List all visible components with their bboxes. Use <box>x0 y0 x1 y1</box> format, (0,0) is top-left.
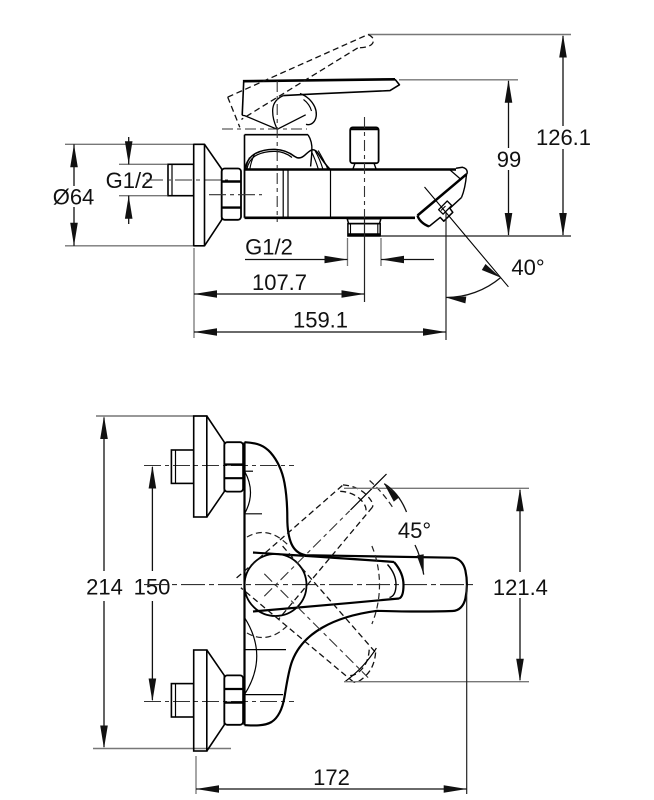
dimension line 107.7 <box>194 293 365 295</box>
svg-text:172: 172 <box>313 765 350 790</box>
extension line top of escutcheon for 214 <box>96 415 207 417</box>
dimension line Ø64 vertical <box>73 144 75 186</box>
extension line pipe bottom for G1/2 <box>119 195 167 197</box>
spout lower edge with aerator bump <box>429 198 462 227</box>
wall pipe stub top view <box>168 164 194 195</box>
lower escutcheon front view <box>194 650 207 751</box>
deck edge line at fold <box>450 170 462 180</box>
handle lever blade side view <box>243 79 395 81</box>
dimension line G1/2 bottom outside arrows <box>245 259 348 261</box>
svg-text:40°: 40° <box>511 255 544 280</box>
angle reference slant 40deg <box>446 213 508 287</box>
handle base side view <box>242 82 244 115</box>
dimension line 172 <box>196 788 467 790</box>
root swing arc lower dashed <box>247 625 288 638</box>
spout barrel inner edge <box>422 177 464 213</box>
spout tip face <box>418 216 430 227</box>
mixer body top view <box>244 170 246 218</box>
swing arc solid segment lower <box>345 648 376 681</box>
lower union hex nut <box>224 675 243 724</box>
angle 45 leader arc <box>384 484 406 512</box>
handle pivot axis centerline <box>276 81 278 222</box>
decorative wavy skirt <box>245 149 330 169</box>
svg-text:G1/2: G1/2 <box>245 235 293 260</box>
lower union inner arc <box>245 618 257 695</box>
extension line bottom for 121.4 <box>344 681 529 683</box>
dimension line 121.4 <box>519 490 521 572</box>
spout end cap right edge <box>462 174 467 197</box>
diverter knob centerline <box>364 117 366 218</box>
extension line spout tip for 172 <box>466 585 468 794</box>
svg-text:Ø64: Ø64 <box>53 185 95 210</box>
upper inlet centerline <box>144 465 294 467</box>
union hex nut side view <box>222 169 241 220</box>
extension line spout tip center <box>445 213 447 341</box>
handle blade front view <box>253 553 394 563</box>
aerator insert <box>439 201 452 214</box>
dashed handle tip inner face down <box>347 650 369 676</box>
extension line bottom reference (outlet underside) for 99 and 126.1 <box>381 235 571 237</box>
body outline front view <box>245 442 467 725</box>
reference line 45 up solid <box>351 474 387 510</box>
main horizontal centerline bottom view <box>144 584 474 586</box>
extension line escutcheon top for Ø64 <box>65 143 193 145</box>
svg-text:214: 214 <box>86 575 123 600</box>
spout top deck corner fold <box>456 167 467 174</box>
svg-text:45°: 45° <box>398 518 431 543</box>
handle blade tip inner face <box>388 565 397 598</box>
svg-text:159.1: 159.1 <box>293 308 348 333</box>
upper union hex nut <box>224 442 243 491</box>
dimension line 99 vertical <box>508 81 510 148</box>
spout axis leader line <box>425 187 447 213</box>
wall pipe centerline <box>146 179 228 181</box>
escutcheon flange side view <box>194 144 205 246</box>
handle boss circle <box>245 554 307 616</box>
dimension line 214 <box>103 418 105 572</box>
extension line bottom of escutcheon for 214 <box>93 748 231 750</box>
svg-text:121.4: 121.4 <box>493 575 548 600</box>
body joint line upper a <box>245 470 254 472</box>
root swing arc upper dashed <box>247 533 288 546</box>
extension line top reference (handle raised tip) for 126.1 <box>368 34 571 36</box>
body centerline <box>209 194 262 196</box>
dimension line 150 <box>151 467 153 571</box>
extension line outlet left for G1/2 <box>347 238 349 266</box>
svg-text:99: 99 <box>497 147 521 172</box>
swing arc inner dashed <box>372 546 380 624</box>
handle 45 up centerline <box>264 511 349 596</box>
upper union inner arc <box>245 471 251 514</box>
extension line pipe top for G1/2 <box>119 163 167 165</box>
upper wall pipe <box>171 450 193 483</box>
body joint line lower a <box>245 649 287 651</box>
dashed handle lowered 45 down <box>283 546 376 652</box>
extension line escutcheon bottom for Ø64 <box>65 245 193 247</box>
extension line outlet right for G1/2 <box>380 238 382 266</box>
body joint line upper b <box>245 513 263 515</box>
cartridge cap top view <box>245 134 309 136</box>
dashed handle raised 45 up <box>237 485 343 578</box>
diverter knob <box>350 127 378 163</box>
dimension line 159.1 <box>194 331 446 333</box>
skirt streamlines <box>312 152 319 169</box>
dimension line 126.1 vertical <box>562 36 564 126</box>
skirt inner wave line <box>247 151 292 169</box>
dimension line G1/2 left with outside arrows <box>128 137 130 164</box>
shower outlet flange <box>347 219 381 224</box>
upper escutcheon front view <box>194 416 207 517</box>
extension line wall plane <box>193 248 195 338</box>
extension line outlet center <box>364 219 366 303</box>
body internal joint lines <box>282 170 284 218</box>
body joint line lower b <box>245 694 284 696</box>
raised handle position dashed <box>228 35 368 98</box>
swing arc outer upper dashed <box>370 481 393 508</box>
handle ball joint dome <box>300 94 316 125</box>
shower outlet thread box <box>348 224 380 236</box>
extension line escutcheon left lower <box>195 756 197 794</box>
extension line top for 121.4 <box>344 487 529 489</box>
extension line handle top plane for 99 <box>399 79 518 81</box>
svg-text:150: 150 <box>134 575 171 600</box>
handle 45 down centerline <box>264 574 368 678</box>
spout barrel outer edge <box>418 174 467 215</box>
lower inlet centerline <box>144 701 294 703</box>
lower wall pipe <box>171 684 193 717</box>
angle arc 40deg <box>446 278 501 298</box>
body left edge front view <box>243 442 245 725</box>
handle base horizontal centerline <box>222 128 307 130</box>
svg-text:107.7: 107.7 <box>252 270 307 295</box>
svg-text:126.1: 126.1 <box>536 125 591 150</box>
dashed handle tip inner face up <box>340 491 366 513</box>
